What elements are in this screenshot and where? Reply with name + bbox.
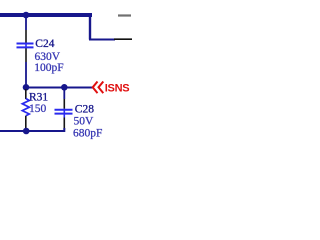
wire gray dash top right	[118, 14, 131, 16]
wire C28 top lead	[63, 88, 65, 100]
wire black segment right edge	[114, 38, 132, 40]
svg-text:150: 150	[29, 103, 47, 115]
pin C24 pin1	[25, 30, 27, 43]
svg-text:50V: 50V	[74, 115, 95, 127]
node junction dot right	[61, 84, 68, 91]
wire top bus horizontal	[0, 13, 92, 17]
pin R31 top	[25, 89, 27, 99]
pin C28 pin2	[63, 118, 65, 131]
svg-text:100pF: 100pF	[34, 62, 63, 74]
wire C24 bottom to node	[25, 62, 27, 88]
node junction dot left	[23, 84, 30, 91]
node junction dot bottom	[23, 128, 30, 135]
wire horizontal to ISNS	[26, 87, 93, 89]
wire bottom rail	[0, 128, 64, 131]
svg-text:ISNS: ISNS	[105, 82, 129, 94]
node junction dot top	[23, 12, 30, 19]
wire bus bottom-right horizontal	[89, 39, 115, 41]
wire top bus vertical drop	[89, 14, 91, 40]
svg-text:680pF: 680pF	[73, 127, 102, 139]
svg-text:C28: C28	[75, 104, 94, 116]
pin C24 pin2	[25, 48, 27, 62]
pin R31 bottom	[25, 116, 27, 129]
svg-text:R31: R31	[29, 91, 48, 103]
pin C28 pin1	[63, 99, 65, 109]
capacitor C24	[17, 43, 34, 49]
wire C24 top lead	[25, 15, 27, 30]
svg-text:C24: C24	[35, 38, 54, 50]
resistor R31	[22, 99, 29, 116]
capacitor C28	[55, 109, 73, 118]
port ISNS chevron	[93, 82, 104, 94]
